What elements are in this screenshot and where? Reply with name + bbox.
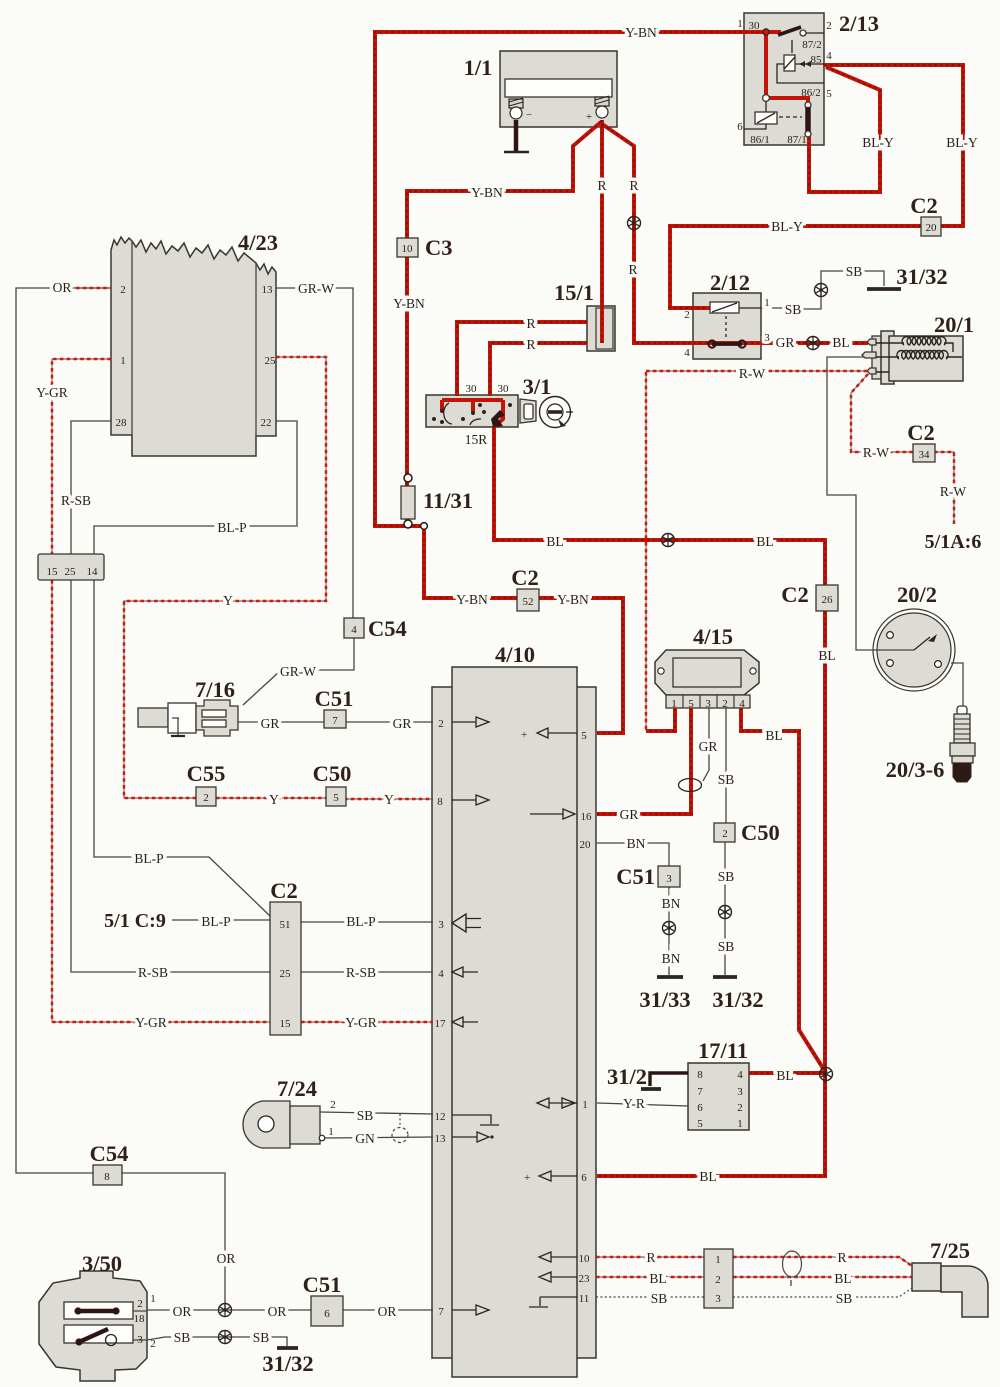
svg-text:R-W: R-W: [863, 445, 890, 460]
svg-text:2: 2: [722, 828, 728, 840]
svg-text:1/1: 1/1: [464, 55, 493, 80]
svg-text:SB: SB: [651, 1291, 668, 1306]
svg-text:23: 23: [579, 1273, 591, 1285]
svg-text:Y-BN: Y-BN: [625, 25, 657, 40]
svg-text:R-SB: R-SB: [138, 965, 168, 980]
svg-text:1: 1: [150, 1293, 156, 1305]
svg-text:R: R: [597, 178, 606, 193]
svg-text:12: 12: [435, 1111, 446, 1123]
svg-text:6: 6: [324, 1308, 330, 1320]
svg-text:Y-BN: Y-BN: [393, 296, 425, 311]
svg-text:20: 20: [580, 839, 592, 851]
svg-text:R: R: [629, 178, 638, 193]
svg-text:51: 51: [280, 919, 291, 931]
svg-text:1: 1: [328, 1126, 334, 1138]
svg-text:BL-P: BL-P: [346, 914, 375, 929]
svg-text:5/1 C:9: 5/1 C:9: [104, 910, 166, 932]
svg-text:4: 4: [351, 624, 357, 636]
svg-text:BL-P: BL-P: [217, 520, 246, 535]
svg-text:6: 6: [581, 1172, 587, 1184]
svg-text:−: −: [526, 109, 532, 121]
svg-text:Y-BN: Y-BN: [557, 592, 589, 607]
svg-text:31/33: 31/33: [639, 987, 690, 1012]
svg-text:86/1: 86/1: [750, 134, 770, 146]
svg-text:30: 30: [466, 383, 478, 395]
svg-text:26: 26: [822, 594, 834, 606]
svg-text:8: 8: [104, 1171, 110, 1183]
svg-text:3: 3: [737, 1086, 743, 1098]
svg-text:+: +: [524, 1172, 530, 1184]
svg-text:15/1: 15/1: [554, 280, 594, 305]
svg-text:GR: GR: [620, 807, 639, 822]
svg-text:C50: C50: [741, 820, 780, 845]
svg-text:13: 13: [262, 284, 274, 296]
svg-text:+: +: [521, 729, 527, 741]
svg-text:BN: BN: [662, 896, 681, 911]
svg-text:4/10: 4/10: [495, 642, 535, 667]
svg-text:10: 10: [402, 243, 414, 255]
svg-text:5: 5: [697, 1118, 703, 1130]
svg-text:20: 20: [926, 222, 938, 234]
svg-text:8: 8: [697, 1069, 703, 1081]
svg-text:7/25: 7/25: [930, 1238, 970, 1263]
svg-text:R: R: [837, 1250, 846, 1265]
svg-text:14: 14: [87, 566, 99, 578]
svg-text:2/13: 2/13: [839, 11, 879, 36]
svg-text:C3: C3: [425, 235, 453, 260]
svg-text:7: 7: [438, 1306, 444, 1318]
svg-text:20/1: 20/1: [934, 312, 974, 337]
svg-text:2: 2: [438, 718, 444, 730]
svg-text:16: 16: [581, 811, 593, 823]
svg-text:C50: C50: [313, 761, 352, 786]
svg-text:15R: 15R: [465, 432, 488, 447]
svg-text:17/11: 17/11: [698, 1038, 748, 1063]
svg-text:20/3-6: 20/3-6: [886, 757, 945, 782]
svg-text:3: 3: [666, 873, 672, 885]
svg-text:BL: BL: [649, 1271, 666, 1286]
svg-text:10: 10: [579, 1253, 591, 1265]
svg-text:SB: SB: [253, 1330, 270, 1345]
svg-text:7/16: 7/16: [195, 677, 235, 702]
svg-text:4: 4: [684, 347, 690, 359]
svg-text:BN: BN: [627, 836, 646, 851]
svg-text:Y: Y: [223, 593, 233, 608]
svg-text:GR: GR: [393, 716, 412, 731]
svg-text:BL: BL: [756, 534, 773, 549]
svg-text:1: 1: [671, 698, 677, 710]
svg-text:C2: C2: [910, 193, 938, 218]
svg-text:GR-W: GR-W: [298, 281, 334, 296]
svg-text:C51: C51: [616, 864, 655, 889]
svg-text:31/32: 31/32: [712, 987, 763, 1012]
svg-text:6: 6: [737, 121, 743, 133]
svg-text:C2: C2: [781, 582, 809, 607]
svg-text:34: 34: [919, 449, 931, 461]
svg-text:Y: Y: [269, 792, 279, 807]
svg-text:5: 5: [826, 88, 832, 100]
svg-text:1: 1: [764, 297, 770, 309]
svg-text:3/50: 3/50: [82, 1251, 122, 1276]
svg-text:BL: BL: [832, 335, 849, 350]
svg-text:11: 11: [579, 1293, 590, 1305]
svg-text:87/1: 87/1: [787, 134, 807, 146]
svg-text:R: R: [526, 337, 535, 352]
svg-text:OR: OR: [268, 1304, 287, 1319]
svg-text:GR: GR: [776, 335, 795, 350]
svg-text:4: 4: [737, 1069, 743, 1081]
svg-text:SB: SB: [836, 1291, 853, 1306]
svg-text:SB: SB: [785, 302, 802, 317]
svg-text:R-W: R-W: [940, 484, 967, 499]
svg-text:31/32: 31/32: [262, 1351, 313, 1376]
svg-text:BL: BL: [834, 1271, 851, 1286]
svg-text:28: 28: [116, 417, 128, 429]
svg-text:31/2: 31/2: [607, 1064, 647, 1089]
svg-text:2/12: 2/12: [710, 270, 750, 295]
svg-text:C55: C55: [187, 761, 226, 786]
svg-text:3: 3: [715, 1293, 721, 1305]
svg-text:GR: GR: [261, 716, 280, 731]
svg-text:15: 15: [47, 566, 59, 578]
svg-text:2: 2: [330, 1099, 336, 1111]
svg-text:SB: SB: [718, 772, 735, 787]
svg-text:R-SB: R-SB: [346, 965, 376, 980]
svg-text:4: 4: [739, 698, 745, 710]
svg-text:25: 25: [265, 355, 277, 367]
svg-text:30: 30: [749, 20, 761, 32]
svg-text:25: 25: [65, 566, 77, 578]
svg-text:4: 4: [826, 50, 832, 62]
svg-text:C51: C51: [303, 1272, 342, 1297]
svg-text:7: 7: [697, 1086, 703, 1098]
svg-text:3: 3: [764, 332, 770, 344]
svg-text:SB: SB: [357, 1108, 374, 1123]
svg-text:C54: C54: [90, 1141, 129, 1166]
svg-text:52: 52: [523, 596, 534, 608]
svg-text:31/32: 31/32: [896, 264, 947, 289]
svg-text:1: 1: [737, 1118, 743, 1130]
svg-text:4/15: 4/15: [693, 624, 733, 649]
svg-text:C2: C2: [270, 878, 298, 903]
svg-text:C54: C54: [368, 616, 407, 641]
svg-text:2: 2: [826, 20, 832, 32]
svg-text:87/2: 87/2: [802, 39, 822, 51]
svg-text:C51: C51: [315, 686, 354, 711]
svg-text:5: 5: [688, 698, 694, 710]
svg-text:30: 30: [498, 383, 510, 395]
svg-text:20/2: 20/2: [897, 582, 937, 607]
svg-text:85: 85: [811, 54, 823, 66]
svg-text:1: 1: [120, 355, 126, 367]
svg-text:BL: BL: [765, 728, 782, 743]
svg-text:2: 2: [722, 698, 728, 710]
svg-text:86/2: 86/2: [801, 87, 821, 99]
svg-text:6: 6: [697, 1102, 703, 1114]
svg-text:BL-P: BL-P: [201, 914, 230, 929]
svg-text:8: 8: [437, 796, 443, 808]
svg-text:BL-P: BL-P: [134, 851, 163, 866]
svg-text:Y: Y: [384, 792, 394, 807]
svg-text:R: R: [628, 262, 637, 277]
svg-text:R-W: R-W: [739, 366, 766, 381]
svg-text:4: 4: [438, 968, 444, 980]
svg-text:1: 1: [582, 1099, 588, 1111]
svg-text:OR: OR: [173, 1304, 192, 1319]
svg-text:7: 7: [332, 715, 338, 727]
svg-text:BL: BL: [699, 1169, 716, 1184]
svg-text:5: 5: [333, 792, 339, 804]
svg-text:15: 15: [280, 1018, 292, 1030]
svg-text:1: 1: [737, 18, 743, 30]
svg-text:3/1: 3/1: [523, 374, 552, 399]
svg-text:BL-Y: BL-Y: [862, 135, 894, 150]
svg-text:1: 1: [715, 1254, 721, 1266]
svg-text:Y-GR: Y-GR: [36, 385, 68, 400]
svg-text:17: 17: [435, 1018, 447, 1030]
svg-text:SB: SB: [718, 869, 735, 884]
svg-text:GN: GN: [355, 1131, 375, 1146]
svg-text:SB: SB: [718, 939, 735, 954]
svg-text:OR: OR: [378, 1304, 397, 1319]
svg-text:GR-W: GR-W: [280, 664, 316, 679]
svg-text:Y-BN: Y-BN: [471, 185, 503, 200]
svg-text:2: 2: [150, 1338, 156, 1350]
svg-text:11/31: 11/31: [423, 488, 473, 513]
svg-text:BL: BL: [776, 1068, 793, 1083]
svg-text:SB: SB: [174, 1330, 191, 1345]
svg-text:3: 3: [438, 919, 444, 931]
svg-text:BL: BL: [546, 534, 563, 549]
svg-text:Y-GR: Y-GR: [345, 1015, 377, 1030]
svg-text:2: 2: [120, 284, 126, 296]
svg-text:25: 25: [280, 968, 292, 980]
svg-text:7/24: 7/24: [277, 1076, 317, 1101]
svg-text:C2: C2: [511, 565, 539, 590]
svg-text:GR: GR: [699, 739, 718, 754]
svg-text:2: 2: [715, 1274, 721, 1286]
svg-text:R: R: [646, 1250, 655, 1265]
svg-text:BL: BL: [818, 648, 835, 663]
svg-text:Y-GR: Y-GR: [135, 1015, 167, 1030]
svg-text:18: 18: [134, 1313, 146, 1325]
svg-text:3: 3: [137, 1334, 143, 1346]
svg-text:13: 13: [435, 1133, 447, 1145]
svg-text:BN: BN: [662, 951, 681, 966]
svg-text:2: 2: [684, 309, 690, 321]
svg-text:3: 3: [705, 698, 711, 710]
svg-text:SB: SB: [846, 264, 863, 279]
svg-text:R-SB: R-SB: [61, 493, 91, 508]
svg-text:+: +: [586, 111, 592, 123]
svg-text:C2: C2: [907, 420, 935, 445]
svg-text:5/1A:6: 5/1A:6: [925, 531, 982, 553]
svg-text:Y-BN: Y-BN: [456, 592, 488, 607]
svg-text:BL-Y: BL-Y: [771, 219, 803, 234]
svg-text:5: 5: [581, 730, 587, 742]
svg-text:OR: OR: [53, 280, 72, 295]
svg-text:Y-R: Y-R: [623, 1096, 645, 1111]
svg-text:2: 2: [737, 1102, 743, 1114]
svg-text:R: R: [526, 316, 535, 331]
svg-text:2: 2: [203, 792, 209, 804]
svg-text:2: 2: [137, 1298, 143, 1310]
svg-text:OR: OR: [217, 1251, 236, 1266]
svg-text:BL-Y: BL-Y: [946, 135, 978, 150]
svg-text:4/23: 4/23: [238, 230, 278, 255]
svg-text:22: 22: [261, 417, 272, 429]
